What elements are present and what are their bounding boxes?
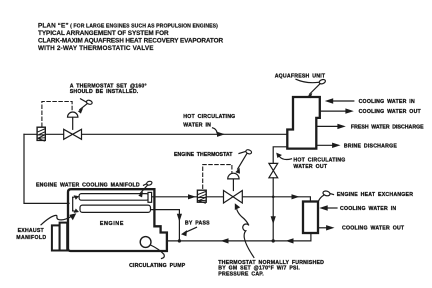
wire: drop pipe continues to junction (272, 178, 274, 241)
svg-text:CLARK-MAXIM AQUAFRESH HEAT REC: CLARK-MAXIM AQUAFRESH HEAT RECOVERY EVAP… (38, 37, 223, 44)
svg-text:HOT CIRCULATING: HOT CIRCULATING (183, 114, 235, 120)
valve V1 (2-way thermostatic, bowtie) (64, 129, 82, 139)
svg-text:COOLING WATER OUT: COOLING WATER OUT (359, 109, 422, 115)
svg-text:ENGINE: ENGINE (100, 221, 124, 227)
svg-text:AQUAFRESH UNIT: AQUAFRESH UNIT (275, 74, 326, 80)
capillary dashed line sensor to actuator (42, 102, 72, 127)
flow arrow toward heat exchanger (292, 194, 300, 199)
valve V1 stem (72, 117, 74, 129)
return flow arrow left segment (221, 238, 229, 243)
wire: left riser down to engine inlet (24, 134, 69, 203)
svg-text:WITH 2-WAY THERMOSTATIC VALVE: WITH 2-WAY THERMOSTATIC VALVE (38, 45, 154, 52)
svg-text:ENGINE THERMOSTAT: ENGINE THERMOSTAT (174, 152, 233, 158)
label: EXHAUST MANIFOLD (16, 228, 46, 241)
leader with loop to exchanger (319, 190, 334, 201)
valve V2 actuator dome (228, 173, 239, 179)
svg-text:PLAN “E” ( FOR LARGE ENGINES S: PLAN “E” ( FOR LARGE ENGINES SUCH AS PRO… (38, 23, 218, 30)
exhaust manifold bars (52, 223, 67, 251)
svg-text:WATER IN: WATER IN (183, 123, 211, 129)
unit cooling water out arrow (321, 108, 422, 115)
svg-text:WATER OUT: WATER OUT (293, 164, 327, 170)
svg-text:SHOULD BE INSTALLED.: SHOULD BE INSTALLED. (70, 89, 139, 95)
svg-text:BRINE DISCHARGE: BRINE DISCHARGE (344, 143, 397, 149)
flow arrow on main pipe (213, 128, 226, 137)
unit cooling water in arrow (325, 98, 415, 105)
valve V3 hot circulating water out (vertical) (269, 163, 278, 177)
leader with loop to unit top (296, 79, 326, 99)
svg-text:HOT CIRCULATING: HOT CIRCULATING (293, 157, 345, 163)
junction dot return/drop (272, 239, 275, 242)
exchanger cooling water out arrow (320, 225, 405, 232)
junction dot at drop pipe crossing (272, 196, 275, 199)
squiggly leader from thermostat note to V2 (235, 203, 254, 257)
valve V1 actuator dome (68, 112, 78, 117)
leader with loop to V2 dome (235, 149, 252, 174)
svg-text:PRESSURE CAP.: PRESSURE CAP. (218, 271, 264, 277)
upper water cooling manifold (79, 194, 149, 201)
svg-text:CIRCULATING PUMP: CIRCULATING PUMP (129, 263, 186, 269)
leader with loop to upper manifold (138, 181, 152, 198)
manifold inlet bracket with arrows (73, 195, 79, 213)
svg-text:FRESH WATER DISCHARGE: FRESH WATER DISCHARGE (351, 124, 424, 130)
svg-text:BY PASS: BY PASS (185, 221, 210, 227)
svg-text:ENGINE WATER COOLING MANIFOLD: ENGINE WATER COOLING MANIFOLD (36, 183, 140, 189)
svg-text:EXHAUST: EXHAUST (18, 228, 45, 234)
svg-text:COOLING WATER IN: COOLING WATER IN (340, 206, 396, 212)
upper manifold end cap (148, 192, 152, 202)
flow arrow toward thermostat (188, 194, 196, 199)
wire: upper manifold to engine thermostat valve and on to junction (152, 197, 311, 202)
title block (38, 23, 223, 52)
engine block outline (68, 189, 167, 251)
svg-text:ENGINE HEAT EXCHANGER: ENGINE HEAT EXCHANGER (337, 192, 414, 198)
return flow arrow right segment (286, 238, 294, 243)
wire: by-pass from lower manifold (151, 210, 179, 241)
wire: hot circulating water in main pipe (24, 133, 288, 135)
leader arrow from BY PASS to line (181, 227, 197, 236)
brine discharge arrow (318, 143, 398, 150)
svg-text:TYPICAL ARRANGEMENT OF SYSTEM: TYPICAL ARRANGEMENT OF SYSTEM FOR (38, 30, 169, 37)
label: HOT CIRCULATING WATER OUT with curved leader (276, 153, 345, 170)
pump leader curve (151, 245, 165, 259)
svg-text:COOLING WATER IN: COOLING WATER IN (359, 99, 415, 105)
engine heat exchanger body (303, 202, 318, 234)
thermostat well TW1 (hatched) on main pipe (37, 127, 45, 141)
svg-text:MANIFOLD: MANIFOLD (16, 235, 46, 241)
junction dot by-pass/return (178, 239, 181, 242)
svg-text:COOLING WATER OUT: COOLING WATER OUT (342, 226, 405, 232)
thermostat well TW2 (hatched) (197, 190, 206, 203)
wire: return line from exchanger bottom to engine (167, 233, 311, 241)
aquafresh unit body (287, 97, 320, 149)
exchanger cooling water in arrow (319, 205, 396, 212)
valve V2 engine thermostat (bowtie) (224, 191, 243, 204)
label: A THERMOSTAT SET @160 (70, 84, 147, 95)
circulating pump circle (140, 237, 151, 248)
wire: unit bottom jog to drop pipe (273, 147, 287, 164)
capillary dashed line TW2 to V2 dome (203, 165, 232, 189)
fresh water discharge arrow (318, 124, 425, 131)
curved leader to exhaust manifold (41, 213, 76, 225)
leader with loop to valve V1 dome (78, 99, 93, 114)
valve V2 stem (232, 179, 234, 190)
label: THERMOSTAT NORMALLY FURNISHED note (218, 260, 324, 278)
label: HOT CIRCULATING WATER IN (183, 114, 235, 129)
by-pass flow arrow down (177, 214, 182, 222)
lower water cooling manifold (80, 205, 151, 212)
flow arrow down on drop pipe (271, 216, 276, 224)
